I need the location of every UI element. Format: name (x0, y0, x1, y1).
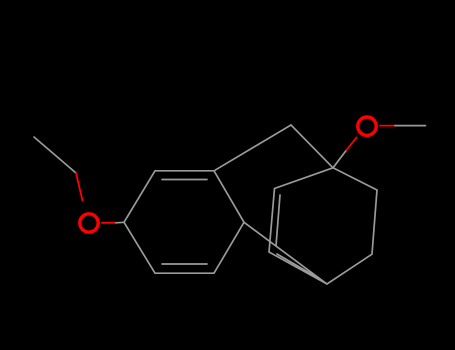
atom O1 left oxygen (80, 214, 98, 232)
wire C-O bond left red part (76, 173, 83, 201)
wire O-methyl bond right red part (380, 125, 395, 127)
benzene ring B outline (269, 168, 377, 284)
benzene ring A outline (124, 171, 244, 273)
ring A double bond top inner line (162, 179, 207, 181)
wire bridge bond B3 (244, 222, 327, 284)
ring B double bond inner line bottom (277, 254, 320, 279)
atom O2 right oxygen (358, 117, 376, 135)
wire O-methyl bond right gray part (395, 125, 426, 127)
wire O-ring bond left red part (102, 222, 116, 224)
ring B double bond inner line left (276, 195, 280, 246)
wire methyl C-C bond left (34, 137, 76, 173)
wire bridge bond B1 (214, 125, 291, 171)
wire ring-O bond right red part (347, 138, 357, 151)
wire O-ring bond left gray part (116, 221, 124, 224)
wire ring-O bond right gray part (333, 150, 347, 168)
ring A double bond bottom inner line (162, 263, 207, 265)
wire bridge bond B2 (291, 125, 333, 168)
